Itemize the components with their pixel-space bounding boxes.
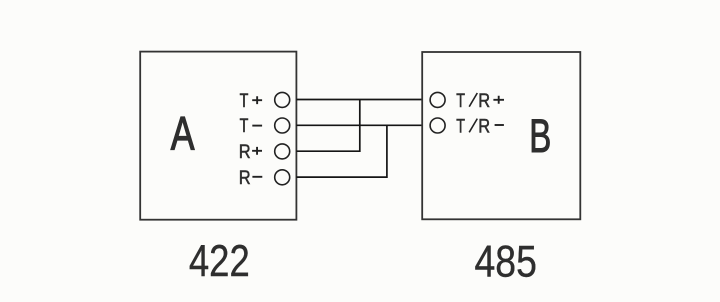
terminal R+ [275,144,290,159]
svg-text:R: R [478,89,490,111]
svg-text:R: R [239,141,251,163]
svg-text:T: T [456,89,465,112]
wire R- join to T- [296,125,387,177]
device B box [422,52,580,219]
svg-text:R: R [239,167,251,189]
pin label T/R- [456,114,504,137]
pin label R- [239,167,263,189]
terminal T/R- [430,118,445,133]
pin label T+ [240,89,262,112]
pin label R+ [239,141,262,163]
pin label T- [240,114,262,137]
svg-text:A: A [171,107,195,160]
terminal R- [275,170,290,185]
terminal T- [275,118,290,133]
terminal T+ [275,92,290,107]
svg-text:485: 485 [475,236,537,286]
pin label T/R+ [456,89,504,112]
device A box [140,52,296,220]
wire T- to T/R- [296,124,422,126]
wire R+ join to T+ [296,100,359,152]
svg-text:T: T [240,114,249,137]
svg-text:T: T [240,89,249,112]
svg-text:T: T [456,114,465,137]
svg-text:R: R [478,115,490,137]
terminal T/R+ [430,92,445,107]
svg-text:422: 422 [189,236,250,286]
svg-text:B: B [529,109,551,162]
wire T+ to T/R+ [296,99,422,101]
